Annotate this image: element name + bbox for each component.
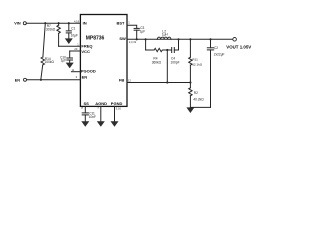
svg-text:FREQ: FREQ (81, 43, 92, 48)
svg-text:EN: EN (15, 79, 21, 83)
svg-text:PGND: PGND (111, 101, 123, 106)
svg-text:R2: R2 (194, 91, 198, 95)
resistor R4 360k (horizontal) (146, 48, 165, 64)
node R4/C4 midpoint tap (166, 49, 168, 51)
node VIN/R-rail junction (44, 22, 46, 24)
svg-text:1μF: 1μF (61, 59, 67, 63)
capacitor C11 10nF soft-start (82, 112, 96, 122)
svg-text:2x22μF: 2x22μF (214, 53, 225, 57)
svg-text:IN: IN (83, 20, 87, 25)
svg-text:4,18: 4,18 (74, 19, 80, 23)
svg-text:VCC: VCC (81, 49, 90, 54)
wire tap down to FB wire (166, 50, 168, 83)
node C2 junction (209, 38, 211, 40)
ground (C1) (65, 38, 73, 44)
svg-text:10nF: 10nF (89, 115, 96, 119)
inductor L2 1uH (157, 29, 171, 39)
svg-text:C2: C2 (214, 46, 218, 50)
capacitor C10 1uF VCC cap (60, 51, 72, 63)
capacitor C1 10uF input cap (66, 22, 78, 38)
terminal EN (15, 78, 27, 82)
svg-text:SW: SW (119, 36, 126, 41)
terminal VIN (14, 22, 26, 26)
wire rail from VIN down to R14 (43, 23, 45, 57)
IC U1 MP8736 buck regulator body (80, 15, 127, 107)
ground (AGND) (97, 121, 105, 127)
resistor R7 301k (VIN to FREQ) (46, 22, 60, 46)
svg-text:R11: R11 (192, 57, 198, 61)
svg-text:EN: EN (82, 75, 88, 80)
wire FB pin to divider (127, 82, 190, 84)
node FB/tap junction (166, 81, 168, 83)
svg-text:301kΩ: 301kΩ (46, 27, 56, 31)
wire VIN to IC IN pin (26, 22, 80, 24)
wire SS pin stub (84, 106, 86, 112)
ground (PGND) (111, 121, 119, 127)
svg-text:VIN: VIN (14, 22, 21, 26)
svg-text:360kΩ: 360kΩ (152, 61, 162, 65)
svg-text:AGND: AGND (95, 101, 107, 106)
svg-text:100pF: 100pF (171, 61, 180, 65)
node right of L2 (177, 38, 179, 40)
wire rail down to R1 (189, 39, 191, 57)
svg-text:2,3,19: 2,3,19 (129, 40, 137, 44)
svg-text:100kΩ: 100kΩ (45, 60, 55, 64)
node VOUT rail / R1 (189, 38, 191, 40)
capacitor C4 100pF (171, 48, 180, 65)
capacitor C2 2x22uF output cap (190, 39, 224, 107)
svg-text:BST: BST (117, 20, 126, 25)
wire BST pin to C3 (127, 25, 137, 28)
svg-text:10μF: 10μF (71, 34, 78, 38)
wire PGOOD stub (open) (71, 71, 80, 73)
terminal VOUT (226, 38, 251, 50)
ground (SS) (81, 121, 89, 127)
node left of L2 (branch) (145, 38, 147, 40)
svg-text:FB: FB (119, 77, 124, 82)
node C3/SW junction (136, 38, 138, 40)
capacitor C3 1uF bootstrap (134, 26, 145, 39)
svg-text:PGOOD: PGOOD (81, 69, 96, 74)
svg-text:MP8736: MP8736 (86, 36, 105, 42)
wire R7 to FREQ pin (59, 45, 81, 47)
svg-text:SS: SS (84, 101, 90, 106)
wire R14 bottom to EN wire (41, 65, 43, 80)
resistor R1 30.1k (189, 57, 203, 66)
svg-text:1μH: 1μH (162, 33, 169, 37)
node EN/R14 junction (40, 79, 42, 81)
ground (C10) (66, 63, 74, 69)
svg-text:VOUT 1.05V: VOUT 1.05V (226, 44, 251, 49)
wire branch right side up to rail (178, 39, 180, 50)
node FB/divider junction (189, 81, 191, 83)
svg-text:5,16: 5,16 (116, 106, 122, 110)
svg-text:1μF: 1μF (140, 30, 146, 34)
svg-text:40.2kΩ: 40.2kΩ (193, 97, 204, 101)
wire VCC pin to C10 (70, 50, 81, 52)
wire SW rail to VOUT (127, 38, 233, 40)
wire EN to IC EN pin (27, 79, 81, 81)
ground (R2/C2) (186, 107, 194, 113)
resistor R2 40.2k (189, 88, 204, 102)
wire down to R4/C4 branch (145, 39, 147, 50)
wire PGND pin stub (114, 106, 116, 121)
svg-text:C1: C1 (71, 27, 75, 31)
resistor R14 100k zigzag (41, 57, 54, 65)
wire AGND pin stub (100, 106, 102, 121)
svg-text:12.1kΩ: 12.1kΩ (192, 62, 203, 66)
